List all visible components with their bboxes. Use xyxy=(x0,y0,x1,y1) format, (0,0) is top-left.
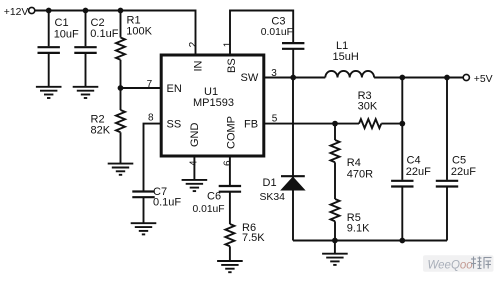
svg-text:R4: R4 xyxy=(347,157,361,169)
svg-text:SW: SW xyxy=(241,72,259,84)
svg-text:BS: BS xyxy=(226,58,238,73)
svg-text:22uF: 22uF xyxy=(451,166,476,178)
svg-text:0.01uF: 0.01uF xyxy=(261,27,293,38)
svg-text:SS: SS xyxy=(167,118,182,130)
svg-text:22uF: 22uF xyxy=(406,166,431,178)
svg-text:1: 1 xyxy=(222,41,233,47)
svg-text:IN: IN xyxy=(193,60,205,71)
svg-text:7: 7 xyxy=(147,79,153,90)
svg-text:82K: 82K xyxy=(91,125,111,137)
svg-text:2: 2 xyxy=(188,41,199,47)
svg-text:EN: EN xyxy=(167,83,182,95)
svg-text:GND: GND xyxy=(189,123,201,148)
svg-text:COMP: COMP xyxy=(226,116,238,149)
svg-text:WeeQoo: WeeQoo xyxy=(428,260,474,272)
svg-text:5: 5 xyxy=(272,114,278,125)
svg-text:+12V: +12V xyxy=(4,7,29,18)
svg-text:470R: 470R xyxy=(347,169,373,181)
svg-text:9.1K: 9.1K xyxy=(347,223,370,235)
svg-text:C1: C1 xyxy=(55,17,69,29)
svg-text:7.5K: 7.5K xyxy=(242,232,265,244)
svg-text:C3: C3 xyxy=(271,16,285,28)
svg-text:+5V: +5V xyxy=(474,74,493,85)
svg-text:0.01uF: 0.01uF xyxy=(193,204,225,215)
svg-text:0.1uF: 0.1uF xyxy=(90,28,118,40)
svg-text:C5: C5 xyxy=(452,155,466,167)
svg-text:C4: C4 xyxy=(407,155,421,167)
svg-text:FB: FB xyxy=(244,118,258,130)
svg-text:3: 3 xyxy=(271,68,277,79)
svg-text:6: 6 xyxy=(222,160,233,166)
svg-text:0.1uF: 0.1uF xyxy=(153,197,181,209)
svg-text:4: 4 xyxy=(189,160,200,166)
svg-text:30K: 30K xyxy=(358,101,378,113)
svg-text:C6: C6 xyxy=(207,191,221,203)
svg-text:8: 8 xyxy=(148,113,154,124)
svg-text:15uH: 15uH xyxy=(333,51,359,63)
svg-text:D1: D1 xyxy=(263,177,277,189)
svg-text:MP1593: MP1593 xyxy=(193,97,234,109)
svg-text:SK34: SK34 xyxy=(260,192,286,203)
svg-text:10uF: 10uF xyxy=(54,29,79,41)
svg-text:100K: 100K xyxy=(126,25,152,37)
